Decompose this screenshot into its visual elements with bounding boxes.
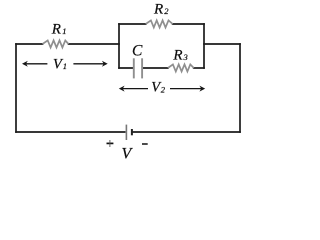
svg-text:3: 3 bbox=[183, 52, 188, 62]
svg-text:2: 2 bbox=[161, 85, 166, 95]
svg-text:V: V bbox=[122, 146, 134, 160]
svg-text:R: R bbox=[51, 21, 61, 37]
svg-text:R: R bbox=[153, 2, 163, 18]
svg-text:C: C bbox=[132, 43, 143, 60]
svg-text:R: R bbox=[172, 47, 182, 63]
svg-text:1: 1 bbox=[63, 61, 67, 71]
svg-text:1: 1 bbox=[62, 26, 66, 36]
svg-text:2: 2 bbox=[164, 6, 169, 16]
